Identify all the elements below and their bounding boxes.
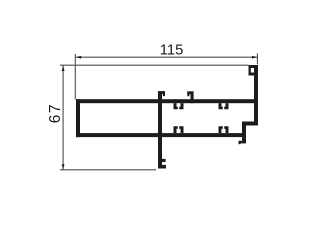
right riser — [242, 122, 246, 138]
groove A lower right ascender — [181, 126, 184, 133]
ext line 115 right — [256, 54, 258, 65]
right top hook flange — [249, 65, 259, 68]
dim line 67 — [62, 65, 64, 169]
groove A lower right foot — [179, 126, 182, 129]
groove A lower left foot — [175, 126, 178, 129]
central bar top hook flange — [158, 91, 165, 94]
groove A upper right descender — [181, 103, 184, 109]
groove A upper left descender — [174, 103, 177, 109]
up-hook U2 leg — [191, 91, 194, 103]
central bar top hook stub — [163, 91, 165, 96]
central bottom hook flange — [162, 165, 166, 169]
up-hook U2 flange — [187, 91, 193, 94]
ext line 67 bottom — [60, 169, 156, 171]
left wall of box — [76, 99, 80, 137]
groove B lower right ascender — [226, 126, 229, 133]
groove A upper left foot — [175, 107, 178, 110]
groove B lower left foot — [220, 126, 223, 129]
groove B upper right foot — [224, 107, 227, 110]
up-hook U2 stub — [187, 91, 189, 96]
groove A lower left ascender — [174, 126, 177, 133]
groove B upper left descender — [219, 103, 222, 109]
ext line 115 left — [74, 54, 76, 100]
right top hook bottom flange — [249, 73, 256, 76]
groove A upper right foot — [179, 107, 182, 110]
groove B lower left ascender — [219, 126, 222, 133]
right bar — [254, 65, 258, 126]
right ledge — [242, 122, 258, 126]
bottom rail — [76, 133, 246, 137]
svg-text:67: 67 — [47, 103, 64, 123]
right J-hook descender — [242, 137, 246, 143]
arrow 115 right — [252, 56, 257, 59]
arrow 115 left — [76, 56, 81, 59]
dim line 115 — [76, 56, 258, 58]
right top hook wall — [249, 65, 251, 76]
groove B lower right foot — [224, 126, 227, 129]
groove B upper right descender — [226, 103, 229, 109]
top rail — [76, 99, 258, 103]
arrow 67 bottom — [62, 164, 65, 169]
right J-hook foot — [239, 141, 247, 144]
groove B upper left foot — [220, 107, 223, 110]
central bottom hook stub — [162, 159, 166, 162]
ext line 67 top — [60, 64, 249, 66]
arrow 67 top — [62, 66, 65, 71]
central bar — [158, 91, 162, 168]
right J-hook foot tip — [239, 141, 241, 144]
svg-text:115: 115 — [160, 43, 184, 59]
